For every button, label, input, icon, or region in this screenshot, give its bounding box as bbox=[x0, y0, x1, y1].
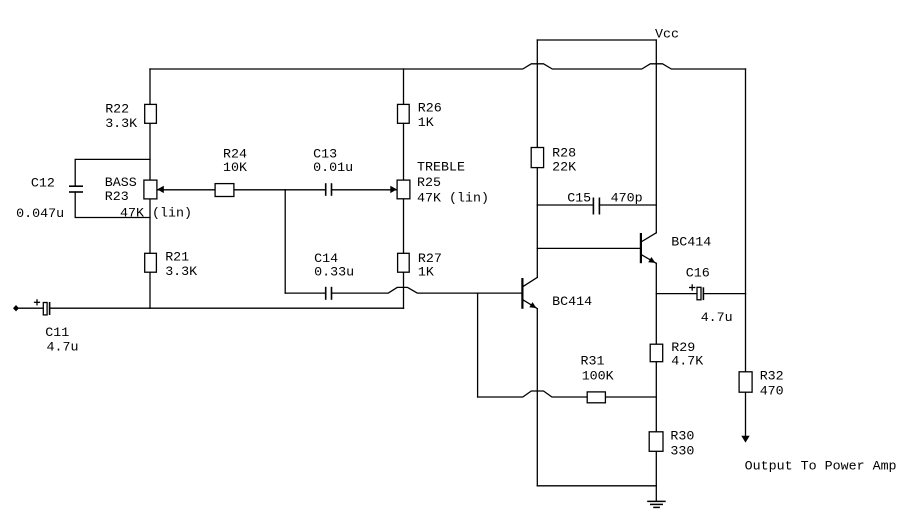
svg-text:R31: R31 bbox=[581, 355, 605, 370]
svg-text:0.047u: 0.047u bbox=[16, 207, 64, 222]
svg-text:BC414: BC414 bbox=[671, 236, 711, 251]
svg-text:C11: C11 bbox=[45, 326, 69, 341]
svg-text:TREBLE: TREBLE bbox=[417, 160, 465, 175]
svg-text:R30: R30 bbox=[670, 429, 694, 444]
svg-text:4.7u: 4.7u bbox=[701, 311, 733, 326]
svg-text:3.3K: 3.3K bbox=[105, 117, 137, 132]
svg-text:R25: R25 bbox=[417, 176, 441, 191]
svg-text:BC414: BC414 bbox=[552, 295, 592, 310]
svg-text:47K (lin): 47K (lin) bbox=[417, 192, 489, 207]
svg-text:R26: R26 bbox=[418, 102, 442, 117]
svg-text:100K: 100K bbox=[582, 369, 614, 384]
svg-text:R22: R22 bbox=[105, 102, 129, 117]
svg-text:0.33u: 0.33u bbox=[314, 266, 354, 281]
svg-text:3.3K: 3.3K bbox=[165, 265, 197, 280]
svg-text:47K (lin): 47K (lin) bbox=[120, 207, 192, 222]
svg-text:0.01u: 0.01u bbox=[313, 161, 353, 176]
svg-text:1K: 1K bbox=[418, 116, 434, 131]
svg-text:R23: R23 bbox=[105, 190, 129, 205]
svg-text:C15: C15 bbox=[567, 192, 591, 207]
svg-text:Output To Power Amp: Output To Power Amp bbox=[745, 460, 897, 475]
svg-text:470: 470 bbox=[760, 385, 784, 400]
svg-text:22K: 22K bbox=[552, 161, 576, 176]
svg-text:Vcc: Vcc bbox=[655, 27, 679, 42]
svg-text:4.7u: 4.7u bbox=[47, 341, 79, 356]
svg-text:R32: R32 bbox=[760, 370, 784, 385]
svg-text:10K: 10K bbox=[223, 161, 247, 176]
svg-text:330: 330 bbox=[670, 445, 694, 460]
svg-text:C12: C12 bbox=[31, 176, 55, 191]
svg-text:R21: R21 bbox=[165, 251, 189, 266]
svg-text:4.7K: 4.7K bbox=[671, 354, 703, 369]
svg-text:R28: R28 bbox=[552, 147, 576, 162]
svg-text:470p: 470p bbox=[611, 192, 643, 207]
svg-text:BASS: BASS bbox=[105, 176, 137, 191]
svg-text:1K: 1K bbox=[418, 266, 434, 281]
svg-text:C16: C16 bbox=[686, 266, 710, 281]
